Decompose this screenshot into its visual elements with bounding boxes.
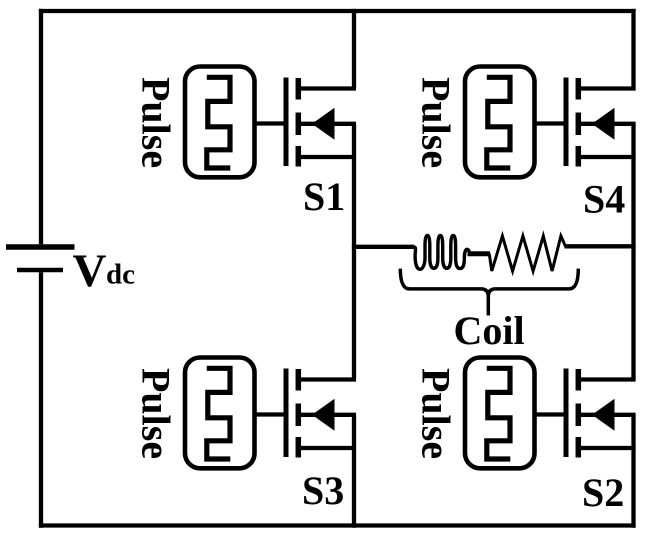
wire resistor to right leg: [565, 244, 636, 248]
svg-text:Pulse: Pulse: [134, 368, 179, 459]
label S1: [303, 174, 345, 219]
inductor L1: [415, 235, 470, 269]
wire gate P4 to S4: [535, 121, 565, 125]
wire right leg bottom (S2 source to bottom rail): [631, 415, 635, 528]
pulse source P1: [185, 67, 255, 178]
label Vdc: [73, 245, 136, 297]
wire left rail lower: [39, 272, 43, 528]
pulse source P2: [465, 358, 535, 469]
brace Coil: [400, 269, 578, 316]
transistor S1: [286, 78, 356, 167]
resistor R1: [489, 236, 565, 271]
wire left leg bottom (S3 source to bottom rail): [352, 415, 356, 528]
battery Vdc: [6, 247, 75, 270]
wire gate P1 to S1: [255, 121, 285, 125]
transistor S3: [286, 369, 356, 458]
wire right leg middle (S4 source to S2 drain): [631, 124, 635, 380]
label Coil: [454, 308, 525, 353]
svg-text:Pulse: Pulse: [134, 77, 179, 168]
wire right leg top (S4 drain to top rail): [631, 9, 635, 89]
wire left leg top (S1 drain to top rail): [352, 9, 356, 89]
wire bottom rail: [39, 523, 636, 527]
pulse source P3: [185, 358, 255, 469]
svg-text:Coil: Coil: [454, 308, 525, 353]
svg-text:S4: S4: [583, 177, 625, 222]
label S4: [583, 177, 625, 222]
pulse source P4: [465, 67, 535, 178]
label Pulse P3: [134, 368, 179, 459]
wire load branch left: [352, 245, 415, 249]
transistor S4: [566, 78, 636, 167]
label S3: [302, 468, 344, 513]
label Pulse P2: [414, 368, 459, 459]
svg-text:Pulse: Pulse: [414, 77, 459, 168]
label Pulse P4: [414, 77, 459, 168]
wire inductor to resistor: [468, 251, 491, 256]
wire gate P2 to S2: [535, 412, 565, 416]
label Pulse P1: [134, 77, 179, 168]
wire left rail upper: [39, 9, 43, 244]
wire gate P3 to S3: [255, 412, 285, 416]
svg-text:S2: S2: [582, 470, 624, 515]
svg-text:dc: dc: [106, 259, 135, 291]
svg-text:V: V: [73, 245, 107, 297]
wire left leg middle (S1 source to S3 drain): [352, 124, 356, 380]
label S2: [582, 470, 624, 515]
svg-text:S1: S1: [303, 174, 345, 219]
transistor S2: [566, 369, 636, 458]
wire top rail: [39, 9, 636, 13]
svg-text:Pulse: Pulse: [414, 368, 459, 459]
svg-text:S3: S3: [302, 468, 344, 513]
